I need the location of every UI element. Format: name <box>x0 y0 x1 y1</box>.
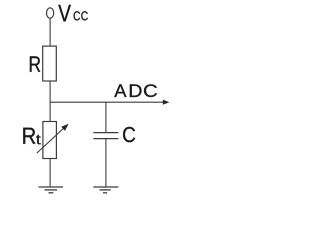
label Rt <box>23 128 40 145</box>
wire resistor to node A and thermistor <box>49 81 51 122</box>
thermistor Rt body <box>43 122 57 159</box>
resistor R <box>43 46 57 81</box>
wire terminal to resistor R <box>49 18 51 46</box>
ground (right branch) <box>93 187 118 193</box>
Vcc terminal circle <box>47 8 54 18</box>
wire capacitor to ground <box>105 139 107 187</box>
label ADC <box>114 84 157 97</box>
capacitor C plates <box>93 133 118 139</box>
thermistor arrow <box>37 124 69 153</box>
ADC arrowhead <box>163 100 170 105</box>
wire node A to capacitor <box>105 102 107 132</box>
label C <box>123 127 135 142</box>
label R <box>30 56 40 71</box>
ground (left branch) <box>39 187 64 193</box>
label Vcc <box>58 5 88 22</box>
wire node A to ADC output <box>50 101 164 103</box>
wire thermistor to ground <box>49 159 51 188</box>
